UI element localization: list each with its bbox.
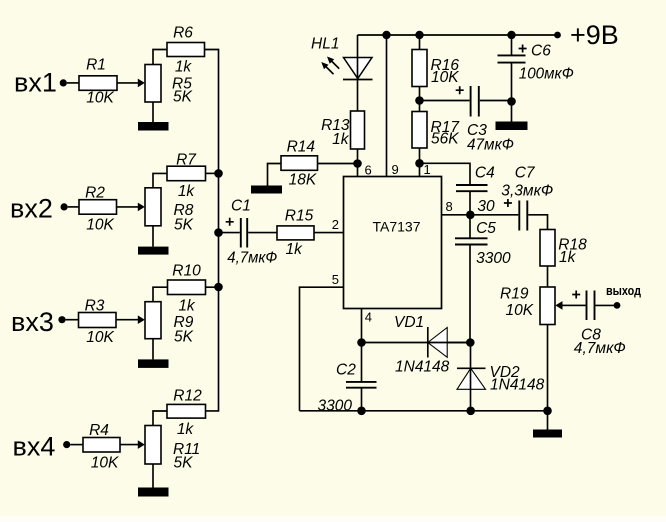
svg-text:1k: 1k	[559, 249, 577, 266]
polarity + (C8)	[572, 291, 580, 299]
capacitor C3	[471, 86, 479, 117]
polarity + (C3)	[456, 86, 464, 94]
wire LED cathode to R13	[357, 80, 359, 112]
svg-text:10K: 10K	[431, 69, 459, 86]
resistor R18	[540, 230, 555, 267]
svg-text:10K: 10K	[86, 329, 114, 346]
wire R9 bottom to ground	[152, 339, 154, 360]
wire input1 to R1	[67, 82, 79, 84]
svg-text:10K: 10K	[91, 455, 119, 472]
capacitor C4	[456, 185, 488, 191]
svg-text:вх2: вх2	[10, 194, 53, 224]
potentiometer R11	[145, 426, 161, 465]
capacitor C6	[498, 55, 526, 62]
svg-text:R1: R1	[86, 57, 106, 74]
svg-text:вх4: вх4	[13, 432, 56, 462]
svg-text:1N4148: 1N4148	[490, 377, 545, 394]
node input 2 terminal	[61, 203, 68, 210]
potentiometer R19	[540, 287, 555, 325]
capacitor C2	[346, 382, 377, 388]
svg-text:R10: R10	[172, 262, 201, 279]
wire R3 to R9 wiper	[116, 315, 145, 324]
resistor R12	[167, 404, 206, 418]
resistor R1	[79, 76, 117, 91]
svg-text:R4: R4	[89, 422, 109, 439]
svg-text:HL1: HL1	[311, 36, 339, 53]
potentiometer R8	[145, 188, 161, 226]
svg-text:3300: 3300	[318, 398, 353, 415]
wire R13 to pin6 node	[357, 149, 359, 177]
svg-text:4: 4	[365, 310, 372, 325]
wire node to VD1	[362, 342, 428, 344]
svg-text:6: 6	[365, 163, 372, 178]
svg-text:1N4148: 1N4148	[395, 359, 450, 376]
wire R8 bottom to ground	[152, 226, 154, 247]
svg-text:C7: C7	[515, 165, 536, 182]
node junction R19-rail	[543, 407, 552, 416]
svg-text:выход: выход	[606, 283, 642, 298]
resistor R4	[83, 438, 120, 453]
ground (R11)	[138, 488, 169, 497]
svg-text:5K: 5K	[173, 89, 193, 106]
resistor R7	[167, 166, 206, 181]
svg-text:5K: 5K	[174, 455, 194, 472]
svg-text:1: 1	[424, 162, 431, 177]
svg-text:9: 9	[392, 162, 399, 177]
svg-text:вх1: вх1	[14, 68, 57, 98]
svg-text:вх3: вх3	[11, 307, 54, 337]
wire node to C5	[469, 215, 471, 239]
node junction C2-rail	[357, 407, 366, 416]
svg-text:3300: 3300	[476, 250, 511, 267]
ground (R5)	[138, 122, 169, 131]
wire pin1 node to C4	[420, 163, 471, 185]
wire pin9	[386, 35, 388, 177]
node junction pin4-C2-VD1	[357, 338, 366, 347]
svg-text:10K: 10K	[86, 216, 114, 233]
svg-text:1k: 1k	[178, 183, 196, 200]
wire wiper to C8	[573, 304, 586, 306]
node junction R16-R17-C3	[415, 96, 424, 105]
node junction pin9-rail	[382, 31, 390, 39]
wire C1 to R15	[248, 232, 277, 234]
svg-text:2: 2	[332, 217, 339, 232]
svg-text:R12: R12	[173, 388, 202, 405]
resistor R6	[167, 43, 205, 57]
wire C3 to C6 node	[480, 100, 512, 102]
node junction R7-bus	[214, 169, 223, 178]
svg-text:5K: 5K	[174, 328, 194, 345]
svg-text:10K: 10K	[86, 90, 114, 107]
wire C8 to output	[596, 304, 615, 306]
svg-text:1k: 1k	[286, 241, 304, 258]
svg-text:100мкФ: 100мкФ	[519, 66, 574, 83]
wire R18 to R19	[547, 266, 549, 287]
wire C2 to rail	[361, 388, 363, 411]
wire R5 top to R6	[153, 50, 167, 65]
capacitor C5	[455, 238, 488, 244]
svg-text:47мкФ: 47мкФ	[467, 137, 514, 154]
wire +9V rail	[358, 34, 558, 36]
wire R19 to bottom rail	[547, 325, 549, 430]
LED HL1	[321, 35, 372, 80]
capacitor C7	[519, 201, 527, 231]
resistor R3	[79, 313, 117, 328]
diode VD1	[428, 327, 470, 358]
node junction C6-rail	[507, 31, 515, 39]
ground (R9)	[138, 359, 169, 368]
svg-text:1k: 1k	[175, 59, 193, 76]
svg-text:VD1: VD1	[394, 314, 424, 331]
resistor R17	[412, 112, 427, 149]
capacitor C8	[587, 291, 595, 321]
svg-text:R6: R6	[173, 25, 193, 42]
svg-text:R2: R2	[85, 185, 105, 202]
wire pin5 to bottom rail	[300, 287, 344, 411]
wire input3 to R3	[66, 319, 79, 321]
wire R11 top to R12	[153, 411, 167, 426]
wire R1 to R5 wiper	[117, 79, 145, 88]
ground (C6)	[496, 122, 528, 131]
wire R8 top to R7	[153, 173, 167, 187]
wire input2 to R2	[68, 206, 79, 208]
ground (R8)	[138, 247, 169, 255]
wire C5 to VD1 node	[469, 245, 471, 343]
svg-text:56K: 56K	[431, 131, 459, 148]
wire C4 to node	[469, 191, 471, 215]
wire R14 to ground	[268, 164, 282, 186]
node output terminal	[614, 302, 621, 309]
svg-text:10K: 10K	[506, 302, 534, 319]
node input 4 terminal	[63, 441, 70, 448]
polarity + (C1)	[226, 218, 234, 226]
wire bottom rail	[300, 410, 548, 412]
svg-text:3,3мкФ: 3,3мкФ	[501, 183, 553, 200]
wire R4 to R11 wiper	[120, 440, 145, 449]
svg-text:C2: C2	[336, 362, 356, 379]
node junction pin8	[466, 211, 475, 220]
node junction R16-rail	[415, 31, 423, 39]
node junction C1-bus	[214, 228, 223, 237]
wire node to C2	[361, 343, 363, 382]
diode VD2	[457, 343, 486, 411]
resistor R13	[351, 111, 365, 149]
node junction VD1-VD2-C5	[466, 338, 475, 347]
ground (output)	[533, 430, 562, 438]
wire bus to C1	[219, 232, 240, 234]
wire C6 to ground	[511, 63, 513, 122]
svg-text:C5: C5	[476, 220, 496, 237]
ground (R14)	[251, 186, 282, 194]
wire R2 to R8 wiper	[117, 203, 145, 212]
wire R5 bottom to ground	[152, 102, 154, 122]
svg-text:TA7137: TA7137	[373, 219, 421, 235]
wiper arrow R19	[555, 301, 572, 310]
polarity + (C7)	[504, 199, 512, 207]
wire R15 to pin2	[314, 232, 344, 234]
svg-text:R19: R19	[500, 285, 529, 302]
resistor R16	[412, 50, 427, 87]
node input 3 terminal	[58, 316, 65, 323]
wire rail to C6	[511, 35, 513, 55]
svg-text:5: 5	[332, 272, 339, 287]
node input 1 terminal	[60, 79, 67, 86]
svg-text:1k: 1k	[332, 131, 350, 148]
node junction R10-bus	[214, 283, 223, 292]
wire R10 to bus	[206, 286, 219, 288]
potentiometer R9	[145, 302, 161, 339]
wire R11 bottom to ground	[152, 464, 154, 488]
svg-text:C6: C6	[531, 43, 551, 60]
svg-text:1k: 1k	[178, 297, 196, 314]
node junction C3-C6	[507, 97, 516, 106]
resistor R10	[168, 280, 206, 295]
node junction pin6	[353, 159, 362, 168]
capacitor C1	[241, 218, 247, 248]
svg-text:30: 30	[477, 198, 495, 215]
svg-text:R14: R14	[287, 138, 316, 155]
wire pin8 to C4-C5 node	[442, 214, 471, 216]
wire node to C3	[420, 100, 470, 102]
svg-text:8: 8	[446, 199, 453, 214]
potentiometer R5	[145, 65, 161, 103]
node junction pin1	[415, 159, 424, 168]
svg-text:R15: R15	[285, 208, 314, 225]
wire R7 to bus	[206, 172, 219, 174]
svg-text:5K: 5K	[174, 216, 194, 233]
svg-text:R7: R7	[176, 151, 197, 168]
node +9V terminal	[554, 32, 561, 39]
svg-text:C1: C1	[231, 198, 251, 215]
svg-text:+9В: +9В	[570, 20, 619, 50]
svg-text:4,7мкФ: 4,7мкФ	[574, 340, 626, 357]
svg-text:R3: R3	[85, 297, 105, 314]
wire VD1 to node	[447, 342, 470, 344]
wire R16 to R17	[419, 87, 421, 112]
wire R17 to pin1 node	[419, 148, 421, 177]
svg-text:C4: C4	[475, 165, 495, 182]
wire C7 to R18	[528, 215, 547, 230]
resistor R2	[79, 200, 117, 215]
svg-text:18K: 18K	[289, 172, 317, 189]
resistor R14	[281, 156, 318, 171]
svg-text:4,7мкФ: 4,7мкФ	[227, 250, 277, 267]
resistor R15	[277, 226, 314, 240]
node junction VD2-rail	[466, 407, 475, 416]
op-amp U1 TA7137 body	[344, 177, 442, 309]
wire input4 to R4	[70, 444, 83, 446]
polarity + (C6)	[519, 45, 527, 53]
wire node to C7	[470, 214, 518, 216]
wire mixing bus	[205, 50, 219, 411]
svg-text:1k: 1k	[177, 421, 195, 438]
wire R9 top to R10	[153, 287, 168, 302]
wire pin4 to C2 node	[361, 309, 363, 343]
wire R14 to pin6 node	[318, 163, 358, 165]
wire rail to R16	[419, 35, 421, 50]
